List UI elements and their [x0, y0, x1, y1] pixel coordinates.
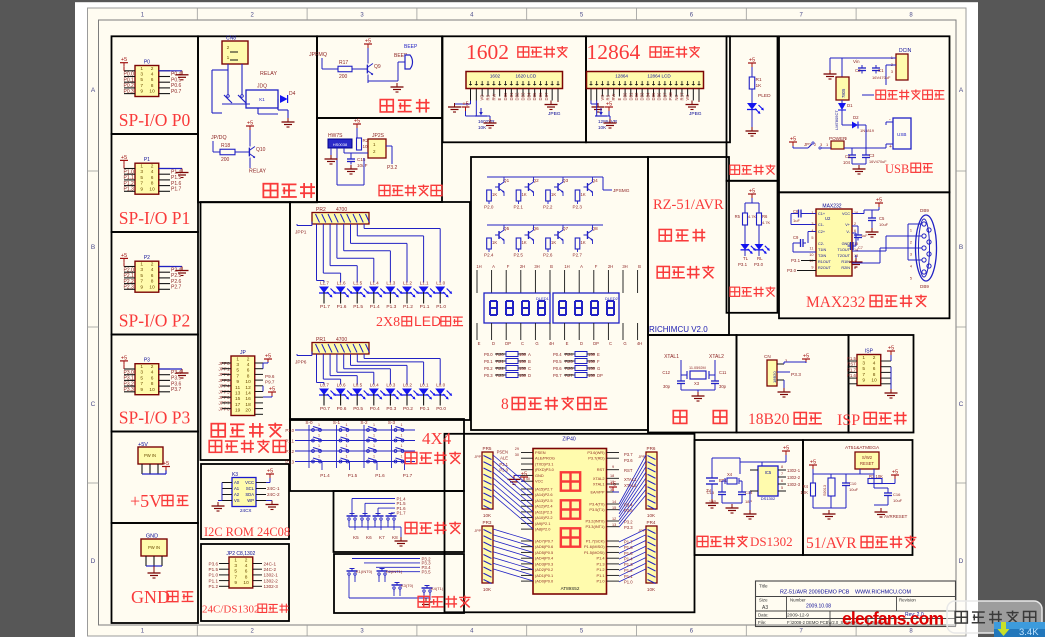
svg-text:P1.6: P1.6	[847, 373, 857, 378]
ground left	[591, 101, 605, 113]
svg-text:USB: USB	[897, 132, 906, 137]
svg-text:5: 5	[781, 486, 783, 490]
svg-text:(AD4)P0.4: (AD4)P0.4	[535, 556, 554, 561]
svg-text:P1.6: P1.6	[375, 473, 385, 478]
svg-text:DB0: DB0	[623, 92, 628, 101]
block I2C ROM 24C08	[201, 464, 289, 539]
ground C15	[345, 165, 358, 174]
svg-text:PW IN: PW IN	[144, 453, 156, 458]
svg-text:C2+: C2+	[818, 230, 826, 234]
svg-text:P2.3: P2.3	[124, 285, 135, 291]
svg-text:10K: 10K	[647, 513, 656, 518]
svg-text:K3(T0): K3(T0)	[401, 583, 414, 588]
svg-text:XTAL1: XTAL1	[593, 482, 605, 487]
svg-text:30p: 30p	[663, 384, 671, 389]
ground	[746, 127, 759, 136]
block MCU	[445, 434, 695, 613]
label P3.2	[387, 165, 398, 171]
svg-text:P1: P1	[144, 157, 150, 163]
svg-text:(AD7)P0.7: (AD7)P0.7	[535, 539, 553, 544]
ground left	[212, 502, 225, 511]
svg-text:L0.2: L0.2	[403, 383, 412, 388]
svg-text:(AD0)P0.0: (AD0)P0.0	[535, 579, 554, 584]
svg-text:30p: 30p	[719, 384, 727, 389]
title MCU	[659, 229, 705, 242]
svg-text:D: D	[959, 558, 964, 565]
power +5	[887, 346, 895, 362]
svg-text:P2.7: P2.7	[171, 285, 182, 291]
ground	[778, 380, 791, 397]
LCD connector 1602	[466, 72, 563, 89]
svg-text:P1.0: P1.0	[436, 304, 446, 310]
svg-text:R26: R26	[565, 366, 573, 371]
block 8-digit 7-segment	[471, 157, 648, 430]
svg-text:P1.3: P1.3	[124, 187, 135, 193]
svg-text:4: 4	[245, 563, 248, 569]
wire CN8 down	[212, 64, 242, 113]
svg-text:ALE: ALE	[500, 456, 508, 461]
svg-text:10: 10	[243, 580, 249, 586]
svg-text:B: B	[638, 264, 641, 269]
svg-text:EA/VPP: EA/VPP	[590, 490, 604, 495]
svg-text:P1.4: P1.4	[370, 304, 380, 310]
svg-text:A: A	[91, 87, 96, 94]
svg-text:1: 1	[401, 444, 403, 448]
svg-text:4X4: 4X4	[422, 429, 452, 448]
svg-text:1: 1	[910, 229, 912, 233]
svg-text:elecfans.com: elecfans.com	[842, 609, 944, 629]
svg-text:24C-1: 24C-1	[264, 561, 277, 566]
block 24C/DS1302 jumpers	[201, 544, 289, 621]
svg-text:D4: D4	[289, 91, 296, 97]
svg-text:7: 7	[140, 279, 143, 285]
labels P3.1 P3.0	[787, 258, 816, 273]
svg-text:DB3: DB3	[640, 92, 645, 101]
svg-text:9: 9	[236, 379, 239, 385]
svg-text:VCC: VCC	[245, 480, 254, 485]
svg-text:9: 9	[612, 465, 614, 469]
svg-text:150: 150	[588, 352, 596, 357]
power +5	[597, 101, 613, 117]
svg-text:Size: Size	[759, 598, 768, 603]
svg-text:S-3: S-3	[388, 420, 396, 425]
svg-text:2: 2	[873, 355, 876, 361]
svg-text:C15: C15	[357, 157, 366, 162]
svg-text:1: 1	[140, 364, 143, 370]
svg-text:C7: C7	[858, 246, 863, 250]
svg-text:6: 6	[151, 77, 154, 83]
svg-text:P1.0: P1.0	[596, 579, 605, 584]
svg-text:DB2: DB2	[634, 92, 639, 101]
svg-text:11: 11	[235, 385, 240, 391]
svg-text:Q10: Q10	[256, 147, 266, 153]
svg-text:10K: 10K	[483, 513, 492, 518]
power +5	[364, 39, 372, 64]
svg-text:12: 12	[612, 517, 616, 521]
svg-text:2: 2	[854, 222, 856, 226]
svg-text:P0.6: P0.6	[337, 406, 347, 412]
LED PLED	[747, 103, 764, 127]
svg-text:P1.7: P1.7	[847, 367, 857, 372]
title MAX232 serial	[806, 294, 927, 311]
svg-text:1K: 1K	[522, 240, 527, 245]
svg-text:DB2: DB2	[515, 92, 520, 101]
svg-text:LM7805CT: LM7805CT	[834, 110, 839, 130]
svg-text:3: 3	[234, 563, 237, 569]
svg-text:L0.1: L0.1	[420, 383, 429, 388]
svg-text:6: 6	[245, 569, 248, 575]
block 1620 LCD interface	[443, 36, 587, 142]
ground right	[874, 505, 888, 517]
svg-text:6: 6	[151, 273, 154, 279]
svg-text:1302-3: 1302-3	[264, 584, 279, 589]
svg-text:AT51&ATMEGA: AT51&ATMEGA	[845, 445, 880, 451]
svg-text:JDQ: JDQ	[257, 84, 267, 90]
svg-text:P9.7: P9.7	[265, 380, 275, 385]
diode D4	[278, 91, 296, 106]
label CN	[764, 354, 771, 359]
svg-text:5: 5	[236, 368, 239, 374]
ground	[282, 118, 295, 127]
svg-text:VS: VS	[234, 498, 240, 503]
svg-text:F: F	[595, 264, 598, 269]
wire relay right	[258, 99, 288, 118]
label JPP6	[295, 352, 312, 366]
svg-text:DB1: DB1	[509, 92, 514, 101]
svg-text:RESET: RESET	[860, 461, 874, 466]
svg-text:7: 7	[862, 372, 865, 378]
svg-text:1302-2: 1302-2	[264, 578, 279, 583]
svg-text:12864: 12864	[615, 74, 628, 79]
title ISP download	[837, 412, 907, 429]
wire bus left top	[493, 455, 533, 529]
svg-text:RST: RST	[624, 468, 633, 473]
wire bus right top	[619, 455, 646, 527]
svg-text:C11: C11	[719, 370, 727, 375]
svg-text:B: B	[91, 244, 95, 251]
svg-text:F: F	[507, 264, 510, 269]
title SP-I/O P0	[119, 110, 191, 130]
connector CN8	[222, 36, 248, 65]
power +5 lower	[263, 387, 276, 398]
svg-text:L0.0: L0.0	[436, 383, 445, 388]
connector +5V PWIN	[138, 442, 163, 464]
svg-text:PR6: PR6	[647, 446, 656, 451]
svg-text:C: C	[959, 401, 964, 408]
resistor R4 10K	[801, 483, 816, 496]
svg-text:10uF: 10uF	[849, 487, 859, 492]
svg-text:P1.2: P1.2	[285, 449, 294, 454]
svg-text:1H: 1H	[564, 264, 569, 269]
svg-text:P1.6: P1.6	[337, 304, 347, 310]
svg-text:C9: C9	[793, 235, 799, 240]
pin labels JPP0-JPP8	[219, 361, 231, 412]
power +5 out	[789, 137, 829, 150]
LCD connector 12864	[587, 72, 704, 89]
svg-text:D: D	[528, 373, 531, 378]
ground right JPBG	[545, 101, 561, 118]
title USB power	[885, 162, 933, 176]
svg-text:9: 9	[811, 266, 813, 270]
svg-text:R1: R1	[756, 77, 762, 83]
transistor Q10	[245, 147, 266, 158]
wire pins down	[146, 556, 162, 569]
IC K3 24C08	[232, 472, 256, 513]
block jumper management group	[201, 202, 291, 460]
svg-text:WWW.RICHMCU.COM: WWW.RICHMCU.COM	[855, 590, 912, 596]
wires K3	[218, 483, 266, 501]
svg-text:1: 1	[373, 434, 375, 438]
svg-text:P1.5: P1.5	[209, 567, 219, 572]
connector P0 10-pin header	[135, 60, 159, 97]
block reset circuit	[803, 440, 913, 555]
svg-text:P2.6: P2.6	[543, 253, 553, 258]
svg-text:G: G	[597, 366, 600, 371]
svg-text:18: 18	[610, 474, 614, 478]
regulator 7805	[836, 77, 849, 100]
MCU right pin stubs	[607, 453, 620, 582]
svg-text:P1.0: P1.0	[209, 573, 219, 578]
labels 1302	[787, 468, 801, 487]
svg-text:6: 6	[151, 375, 154, 381]
svg-text:2H: 2H	[608, 264, 613, 269]
svg-text:B: B	[550, 264, 553, 269]
svg-text:A2: A2	[234, 492, 240, 497]
svg-text:10K: 10K	[598, 125, 607, 130]
wire right pins	[255, 363, 263, 414]
relay contacts	[222, 95, 250, 104]
svg-text:RW: RW	[491, 94, 496, 101]
sheet inner border	[99, 20, 957, 625]
svg-text:2009.10.08: 2009.10.08	[806, 604, 831, 610]
svg-text:(TXD)P3.1: (TXD)P3.1	[535, 462, 553, 467]
svg-text:R23: R23	[496, 373, 504, 378]
svg-text:P1.3: P1.3	[624, 562, 633, 567]
svg-text:SCL: SCL	[246, 486, 255, 491]
potentiometer 1602VR 10K	[475, 108, 497, 130]
svg-text:GND: GND	[535, 473, 544, 478]
svg-text:Vin: Vin	[853, 59, 860, 64]
svg-text:P1.3: P1.3	[285, 460, 294, 465]
svg-text:P0.7: P0.7	[320, 406, 330, 412]
display DLED1	[484, 293, 550, 323]
block IR receiver	[317, 118, 442, 202]
watermark chinese	[955, 611, 1036, 624]
svg-text:RICHIMCU V2.0: RICHIMCU V2.0	[649, 325, 708, 334]
svg-text:NC: NC	[674, 95, 679, 101]
svg-text:4H: 4H	[549, 341, 554, 346]
switch POWER	[826, 136, 852, 149]
svg-text:4.7K: 4.7K	[748, 214, 757, 219]
svg-text:104: 104	[843, 160, 851, 165]
svg-text:P1.1: P1.1	[285, 439, 294, 444]
resistor R17 200	[338, 60, 363, 80]
svg-text:150: 150	[519, 366, 527, 371]
svg-text:(A15)P2.7: (A15)P2.7	[535, 487, 553, 492]
svg-text:P3.6: P3.6	[624, 458, 633, 463]
ground left	[823, 510, 836, 519]
svg-text:13: 13	[612, 523, 616, 527]
label P3.3	[791, 372, 801, 378]
svg-text:7: 7	[781, 472, 783, 476]
label JP/DQ	[211, 135, 227, 152]
LED RL	[754, 244, 770, 267]
svg-text:15: 15	[612, 506, 616, 510]
svg-text:P0.1: P0.1	[484, 359, 493, 364]
title +5V expansion	[130, 491, 189, 511]
svg-text:1N5819: 1N5819	[860, 128, 875, 133]
svg-text:P1.7: P1.7	[171, 187, 182, 193]
MCU right pin names	[584, 450, 605, 584]
svg-text:S-2: S-2	[360, 420, 368, 425]
svg-text:7: 7	[140, 381, 143, 387]
title crystal	[673, 411, 726, 424]
svg-text:RELAY: RELAY	[249, 169, 266, 175]
connector P2 10-pin header	[135, 255, 159, 292]
power +5	[120, 155, 128, 169]
svg-text:JP1: JP1	[804, 142, 812, 147]
svg-text:10: 10	[809, 253, 813, 257]
svg-text:4H: 4H	[637, 341, 642, 346]
svg-text:P1.3: P1.3	[596, 561, 604, 566]
svg-text:SP-I/O P0: SP-I/O P0	[119, 110, 191, 130]
block buzzer	[317, 36, 442, 118]
svg-text:DB9: DB9	[920, 208, 929, 213]
ground	[176, 267, 189, 276]
ground right JPBG	[686, 101, 702, 118]
connector ISP	[857, 349, 881, 386]
svg-text:P0.3: P0.3	[386, 406, 396, 412]
pin numbers left	[809, 211, 813, 270]
svg-text:PSB: PSB	[668, 92, 673, 100]
svg-text:G: G	[623, 341, 626, 346]
battery BT1	[706, 474, 727, 499]
capacitor C7	[848, 233, 863, 267]
svg-text:IC5: IC5	[765, 470, 772, 475]
svg-text:GND: GND	[842, 242, 851, 246]
title IR receiver	[379, 185, 442, 197]
svg-text:P0.2: P0.2	[403, 406, 413, 412]
power +5	[246, 121, 254, 147]
svg-text:P0.3: P0.3	[484, 373, 493, 378]
wires ISP	[847, 356, 891, 389]
svg-text:4: 4	[151, 72, 154, 78]
svg-text:P0.2: P0.2	[484, 366, 493, 371]
title DS1302	[697, 534, 793, 549]
block DS1302 clock	[695, 440, 804, 555]
svg-text:XTAL1: XTAL1	[664, 354, 679, 360]
capacitor C13	[707, 481, 726, 504]
power +5	[784, 354, 810, 365]
svg-text:C2: C2	[855, 68, 861, 73]
svg-text:24C-2: 24C-2	[267, 492, 280, 497]
svg-text:PLED: PLED	[758, 93, 771, 99]
svg-text:3H: 3H	[534, 264, 539, 269]
svg-text:SDA: SDA	[245, 492, 254, 497]
svg-text:1: 1	[318, 455, 320, 459]
svg-text:24C/DS1302: 24C/DS1302	[202, 604, 259, 616]
svg-text:X4: X4	[727, 472, 733, 477]
svg-text:1602: 1602	[466, 40, 509, 64]
svg-text:1302-2: 1302-2	[787, 475, 801, 480]
keys K5-K8	[347, 496, 407, 540]
title matrix keyboard	[405, 452, 461, 465]
svg-text:P3.3: P3.3	[624, 525, 633, 530]
svg-text:A0: A0	[234, 480, 240, 485]
capacitor C1 470uF	[872, 65, 891, 80]
svg-text:L1.4: L1.4	[370, 281, 379, 286]
svg-text:P0.1: P0.1	[420, 406, 430, 412]
svg-text:(AD2)P0.2: (AD2)P0.2	[535, 567, 553, 572]
svg-text:HW7S: HW7S	[328, 133, 343, 139]
svg-text:P1.4: P1.4	[596, 556, 605, 561]
resistor R2 100	[357, 138, 371, 150]
svg-text:B: B	[959, 244, 963, 251]
svg-text:150: 150	[519, 352, 527, 357]
svg-text:P0.0: P0.0	[484, 352, 493, 357]
title learning system	[657, 266, 714, 279]
svg-text:3: 3	[236, 362, 239, 368]
power +5	[745, 189, 759, 214]
svg-text:RS: RS	[486, 95, 491, 101]
svg-text:17: 17	[235, 402, 241, 408]
wire to ground	[159, 168, 182, 170]
svg-text:K4(T1): K4(T1)	[431, 586, 444, 591]
svg-text:P1.5: P1.5	[348, 473, 358, 478]
svg-text:1: 1	[318, 423, 320, 427]
svg-text:P1.0: P1.0	[624, 580, 633, 585]
svg-text:11: 11	[810, 247, 814, 251]
svg-text:5: 5	[910, 277, 912, 281]
svg-text:3: 3	[811, 222, 813, 226]
svg-text:P3.3: P3.3	[791, 372, 801, 378]
svg-text:MAX232: MAX232	[806, 294, 865, 311]
svg-text:K8: K8	[392, 535, 398, 540]
svg-text:9: 9	[140, 186, 143, 192]
svg-text:C3: C3	[869, 153, 875, 158]
svg-text:6: 6	[247, 368, 250, 374]
svg-text:L0.5: L0.5	[353, 383, 362, 388]
svg-text:51/AVR: 51/AVR	[806, 535, 857, 552]
ground	[148, 569, 161, 578]
wires crystal	[681, 360, 715, 390]
svg-text:4: 4	[873, 361, 876, 367]
svg-text:5: 5	[811, 236, 813, 240]
title jumper group line2	[209, 440, 285, 453]
connector DCIN	[891, 48, 912, 80]
svg-text:P3.6: P3.6	[209, 561, 219, 566]
svg-text:RST: RST	[847, 362, 856, 367]
svg-text:2: 2	[910, 241, 912, 245]
svg-text:DS1302: DS1302	[761, 496, 776, 501]
svg-text:4: 4	[151, 370, 154, 376]
resistor R18 200	[220, 143, 245, 163]
connector JP 20-pin	[231, 350, 255, 416]
label HW7S	[328, 133, 343, 139]
svg-text:P2.2: P2.2	[543, 205, 553, 210]
switch S/W2 reset	[855, 452, 879, 474]
block SP-I/O P1	[112, 134, 199, 232]
svg-text:P1.5: P1.5	[847, 356, 857, 361]
svg-text:P3.0: P3.0	[787, 268, 797, 273]
connector USB	[875, 117, 911, 150]
svg-text:18B20: 18B20	[748, 411, 790, 428]
svg-text:PR5: PR5	[483, 446, 492, 451]
svg-text:10K: 10K	[478, 125, 487, 130]
svg-text:L1.2: L1.2	[403, 281, 412, 286]
svg-text:P9.6: P9.6	[265, 374, 275, 379]
svg-text:Date:: Date:	[758, 613, 769, 618]
